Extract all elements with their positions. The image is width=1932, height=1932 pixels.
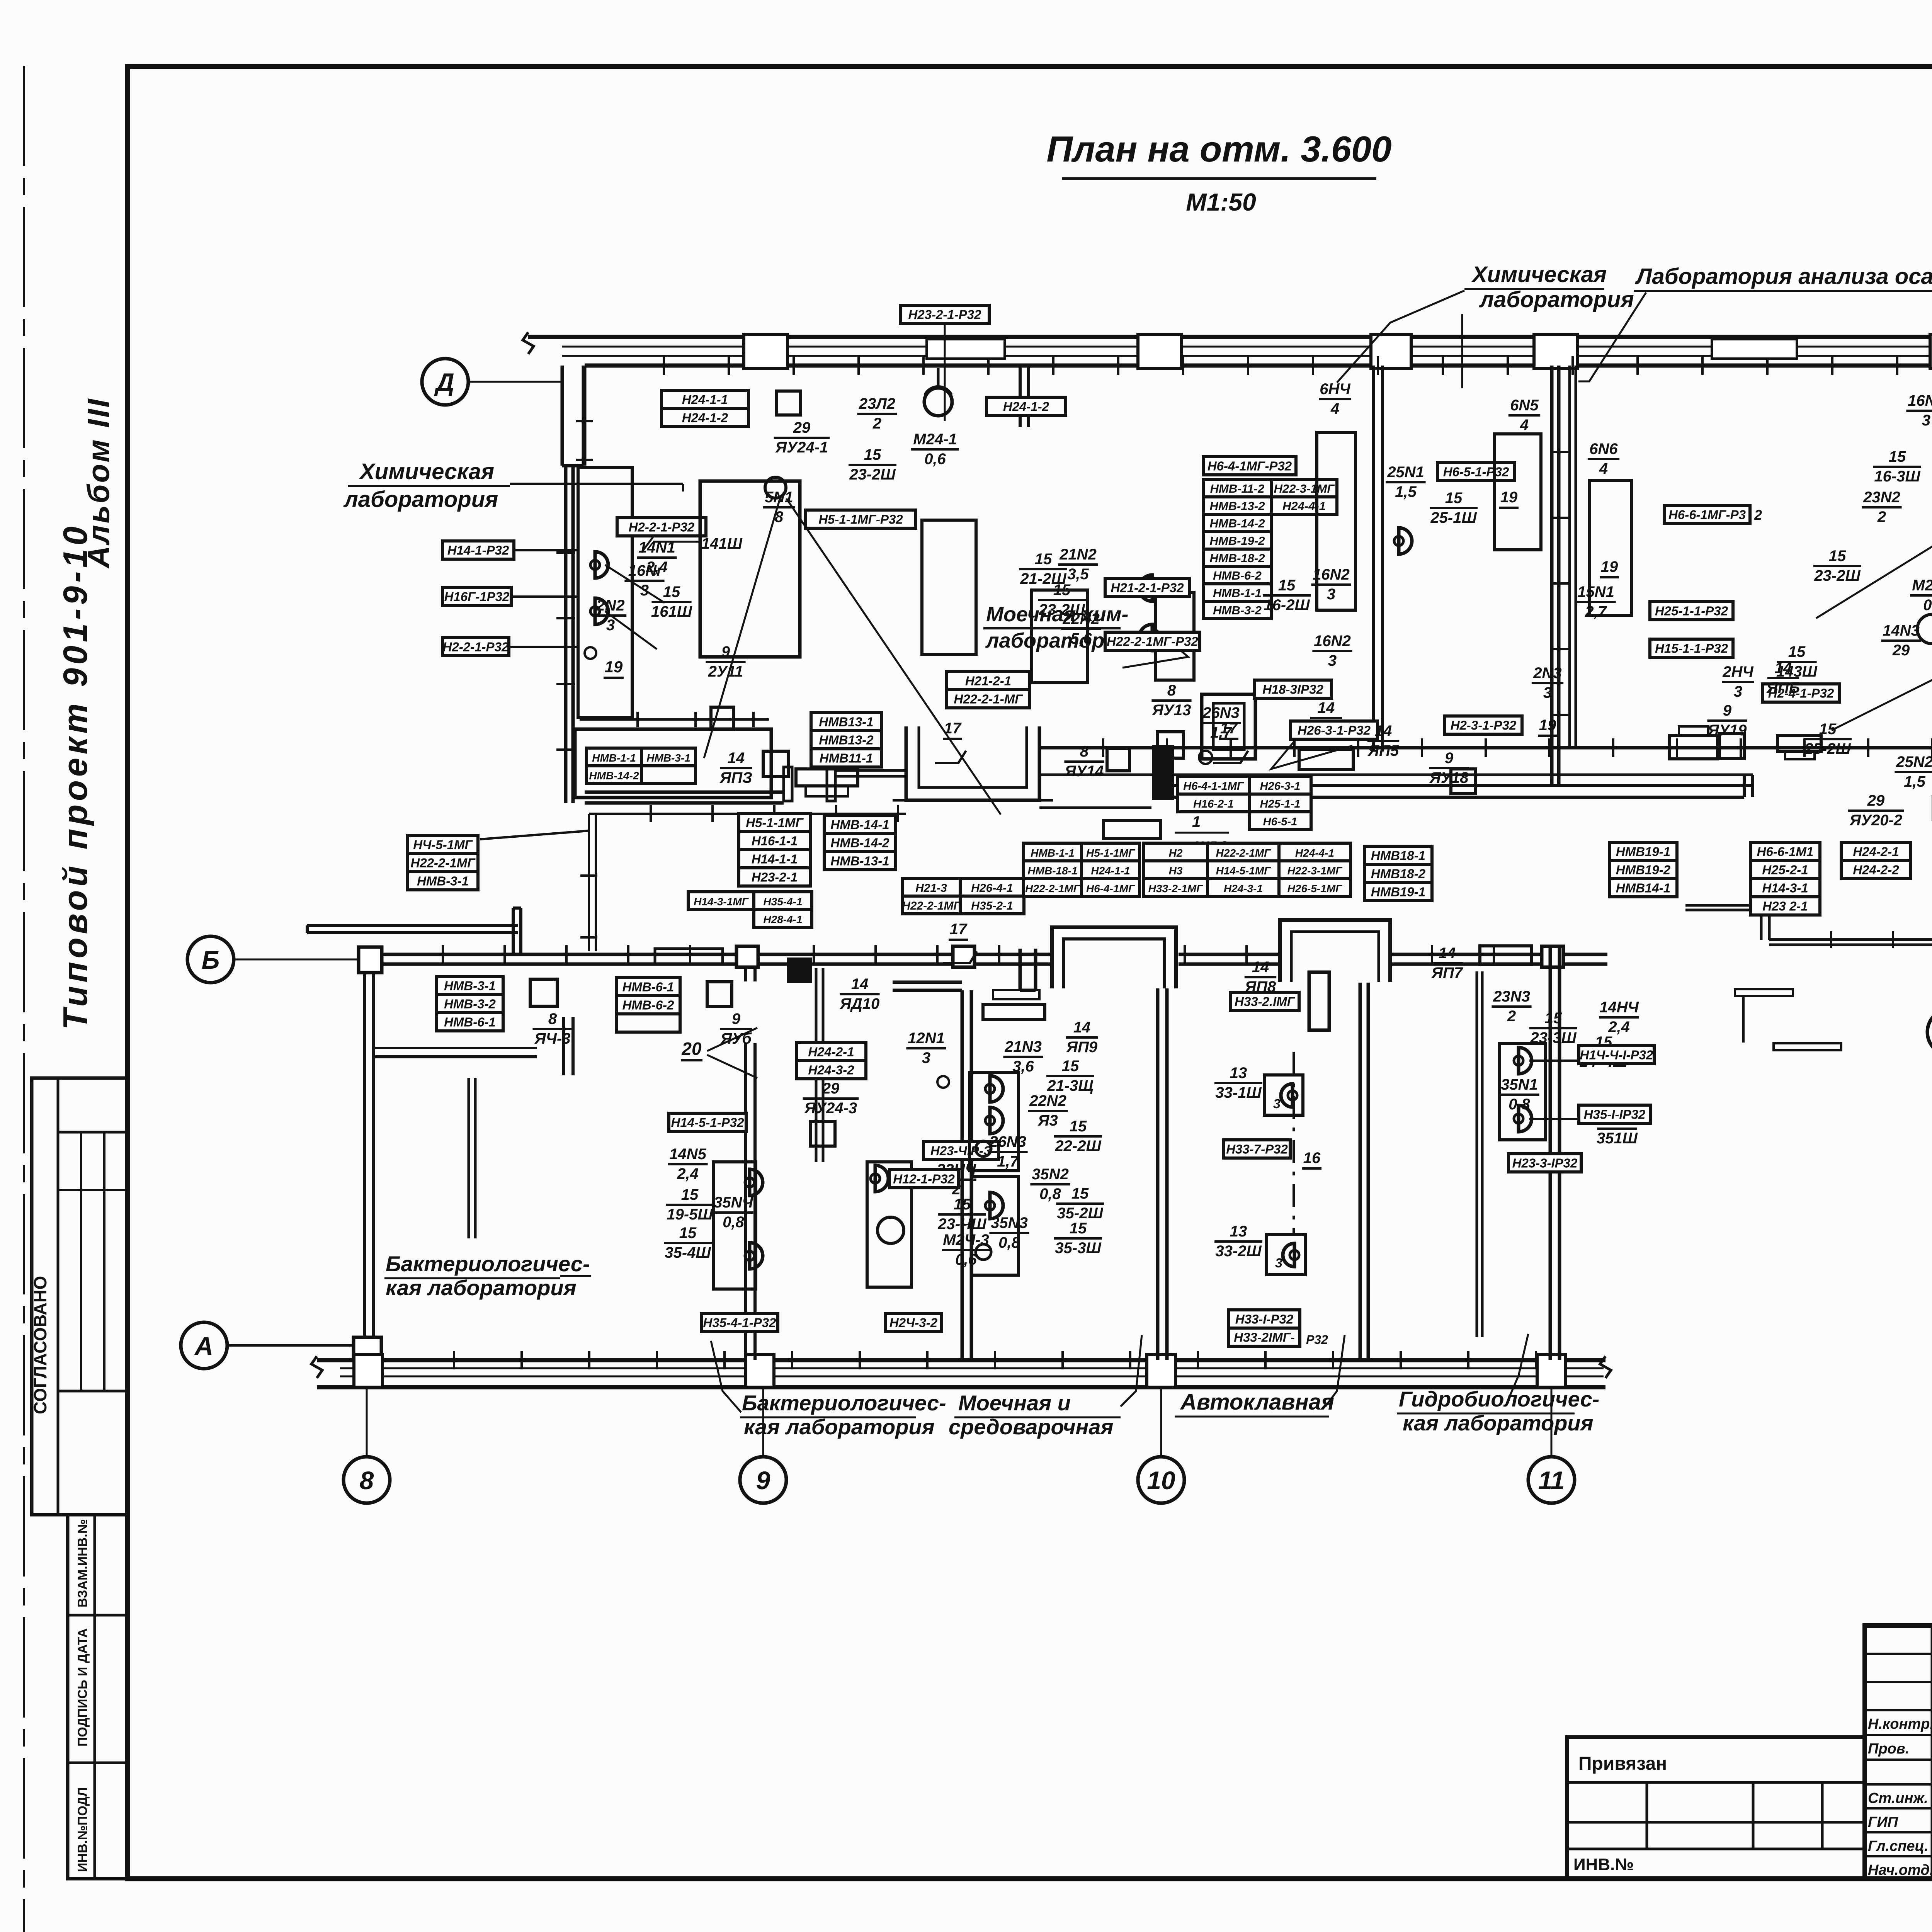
svg-text:0,8: 0,8 [723, 1214, 744, 1231]
svg-text:17: 17 [950, 921, 968, 938]
svg-text:2: 2 [1507, 1008, 1516, 1025]
svg-text:Н24-2-2: Н24-2-2 [1853, 863, 1899, 877]
svg-text:22N2: 22N2 [1029, 1092, 1066, 1109]
svg-text:2N3: 2N3 [1533, 665, 1561, 682]
svg-text:НМВ19-2: НМВ19-2 [1616, 863, 1671, 877]
svg-text:Н15-1-1-Р32: Н15-1-1-Р32 [1655, 641, 1728, 656]
box Н18-3Р32 [1254, 680, 1332, 698]
svg-text:Н22-2-1-МГ: Н22-2-1-МГ [954, 692, 1024, 706]
box Н6-4-1МГ-Р32 [1203, 457, 1296, 475]
svg-text:4: 4 [1520, 417, 1529, 434]
lamp М24-1 [924, 388, 952, 416]
lower block bottom band [317, 1358, 1605, 1362]
svg-text:15: 15 [1053, 582, 1071, 599]
luminaire 21N2 [1139, 575, 1157, 601]
svg-text:35NЧ: 35NЧ [714, 1194, 753, 1211]
diagonal leader 2 [786, 498, 1001, 815]
svg-text:Н24-2-1: Н24-2-1 [1853, 845, 1899, 859]
svg-text:Н33-2.IМГ: Н33-2.IМГ [1235, 995, 1296, 1009]
svg-text:23N2: 23N2 [1863, 489, 1900, 506]
svg-text:ЯУ14: ЯУ14 [1065, 763, 1104, 780]
axis Д circle [422, 359, 468, 405]
svg-text:Я3: Я3 [1037, 1112, 1058, 1129]
svg-text:НМВ-18-1: НМВ-18-1 [1027, 865, 1077, 877]
svg-text:Н21-3: Н21-3 [915, 882, 947, 895]
svg-text:НМВ-14-2: НМВ-14-2 [589, 770, 639, 782]
svg-text:Лаборатория анализа осадка: Лаборатория анализа осадка [1635, 264, 1932, 289]
svg-text:161Ш: 161Ш [651, 603, 692, 620]
svg-text:НМВ-1-1: НМВ-1-1 [1031, 847, 1075, 859]
boxes Н21-2-1 [947, 672, 1030, 690]
svg-text:2: 2 [1754, 507, 1762, 523]
svg-text:0,6: 0,6 [924, 451, 946, 468]
bay walls near x2640 [893, 981, 962, 984]
svg-text:ЯУ20-2: ЯУ20-2 [1849, 812, 1902, 829]
svg-text:14: 14 [1775, 660, 1792, 677]
svg-text:5,6: 5,6 [1070, 630, 1092, 647]
box Н23-2-1-Р32 above band [900, 305, 989, 323]
square ЯУ13 [1157, 732, 1184, 758]
upper block partition stub [1019, 366, 1022, 427]
svg-text:15: 15 [1445, 490, 1463, 507]
vestibule B автоклавная [1278, 919, 1392, 983]
svg-text:НМВ-13-2: НМВ-13-2 [1210, 499, 1265, 513]
svg-text:35N3: 35N3 [991, 1214, 1028, 1231]
svg-text:15: 15 [1278, 577, 1296, 594]
svg-text:Н26-3-1: Н26-3-1 [1260, 780, 1301, 793]
svg-text:М24-2: М24-2 [1912, 577, 1932, 594]
upper block bottom wall left segment [585, 791, 784, 794]
svg-text:Н23 2-1: Н23 2-1 [1762, 899, 1808, 913]
fixture ЯП9 [983, 1004, 1045, 1020]
svg-text:Н1Ч-Ч-I-Р32: Н1Ч-Ч-I-Р32 [1580, 1048, 1653, 1062]
svg-text:ЯЧ-3: ЯЧ-3 [534, 1030, 570, 1047]
bench L1 [713, 1162, 756, 1289]
svg-text:Б: Б [202, 946, 220, 974]
svg-text:23Л2: 23Л2 [859, 395, 895, 412]
svg-text:Н24-4-1: Н24-4-1 [1295, 847, 1334, 859]
svg-text:Нач.отд.: Нач.отд. [1868, 1862, 1932, 1878]
svg-text:НМВ-3-1: НМВ-3-1 [646, 752, 690, 764]
svg-text:1,5: 1,5 [1395, 483, 1417, 500]
slab line under left rooms [589, 813, 906, 815]
svg-text:Н22-2-1МГ: Н22-2-1МГ [902, 900, 961, 912]
svg-text:15: 15 [1070, 1118, 1087, 1135]
svg-text:15: 15 [679, 1225, 697, 1242]
svg-text:ПОДПИСЬ И ДАТА: ПОДПИСЬ И ДАТА [75, 1628, 90, 1747]
svg-text:6N6: 6N6 [1589, 440, 1618, 457]
svg-text:Н14-3-1МГ: Н14-3-1МГ [694, 896, 749, 908]
box Н5-1-1МГ-Р32 [806, 510, 916, 528]
lower partition x4012 [1549, 947, 1552, 1360]
svg-text:ВЗАМ.ИНВ.№: ВЗАМ.ИНВ.№ [75, 1519, 90, 1607]
svg-text:НМВ-14-1: НМВ-14-1 [830, 818, 889, 832]
slab end stub [512, 908, 515, 955]
corridor wall x4016 [1550, 366, 1554, 786]
wall joint block [1152, 745, 1174, 800]
svg-text:8: 8 [1167, 682, 1176, 699]
svg-text:Н25-2-1: Н25-2-1 [1762, 863, 1808, 877]
svg-text:3: 3 [606, 617, 615, 634]
box Н23-4-1Р-3 [923, 1141, 998, 1160]
svg-text:20: 20 [681, 1039, 702, 1059]
lower partition x3520 [1359, 978, 1362, 1360]
svg-text:25N2: 25N2 [1896, 753, 1932, 770]
svg-text:21N2: 21N2 [1059, 546, 1097, 563]
svg-text:Н6-4-1МГ-Р32: Н6-4-1МГ-Р32 [1207, 459, 1292, 473]
svg-text:Н22-2-1МГ: Н22-2-1МГ [1216, 847, 1271, 859]
switch box 33-2 [1267, 1235, 1305, 1275]
box Н24-3-2 lower [885, 1313, 942, 1332]
svg-text:НМВ-18-2: НМВ-18-2 [1210, 551, 1265, 565]
square ЯУ6 [707, 982, 732, 1007]
switch box 33-1 [1264, 1075, 1303, 1115]
svg-text:9: 9 [1723, 702, 1732, 719]
svg-text:Н16Г-1Р32: Н16Г-1Р32 [444, 590, 510, 604]
svg-text:М2Ч-3: М2Ч-3 [943, 1231, 989, 1248]
svg-text:2,4: 2,4 [677, 1165, 699, 1182]
fixture ЯПБ [1670, 736, 1718, 759]
svg-text:Н21-2-1-Р32: Н21-2-1-Р32 [1111, 581, 1184, 595]
sheet margin dash line left [23, 66, 25, 1932]
square ЯУ14 [1107, 748, 1129, 771]
svg-text:13: 13 [1230, 1223, 1247, 1240]
svg-text:14N3: 14N3 [1883, 622, 1920, 639]
lower block left wall [363, 972, 366, 1337]
vertical tray from corridor [588, 814, 590, 951]
svg-text:НМВ13-1: НМВ13-1 [819, 715, 873, 729]
svg-text:ЯУ13: ЯУ13 [1152, 702, 1191, 719]
black box ЯП10 [787, 957, 812, 983]
fixture ЯПУ [1202, 694, 1255, 759]
svg-text:НМВ-6-1: НМВ-6-1 [622, 980, 674, 994]
svg-text:19: 19 [1601, 558, 1618, 575]
svg-text:Химическая: Химическая [1471, 262, 1607, 287]
svg-text:Н23-2-1: Н23-2-1 [752, 870, 798, 884]
bench НМВ-1-1 room [575, 729, 771, 798]
axis Д tee wall [561, 366, 564, 466]
svg-text:15: 15 [1071, 1185, 1089, 1202]
top band window blocks [927, 339, 1005, 359]
title block left привязан box [1567, 1737, 1865, 1879]
svg-text:4: 4 [1599, 460, 1608, 477]
bench U1 circle [765, 477, 786, 498]
stack Н5-1-1МГ [739, 813, 810, 832]
box Н21-2-1-Р32 [1105, 578, 1189, 597]
svg-text:Н14-1-Р32: Н14-1-Р32 [447, 543, 509, 558]
svg-text:Н2-2-1-Р32: Н2-2-1-Р32 [629, 520, 695, 534]
svg-text:1,7: 1,7 [997, 1153, 1019, 1170]
vestibule C средоварочная [1050, 926, 1179, 988]
svg-text:Н24-4-1: Н24-4-1 [1282, 499, 1326, 513]
dash-dot cable down autoclave [1293, 1052, 1295, 1235]
svg-text:Н33-2-1МГ: Н33-2-1МГ [1148, 883, 1204, 895]
svg-text:14: 14 [1073, 1019, 1091, 1036]
luminaire bench L2 [871, 1165, 888, 1192]
svg-text:15: 15 [1889, 448, 1906, 465]
svg-text:ЯП5: ЯП5 [1367, 742, 1399, 759]
svg-text:2N2: 2N2 [596, 597, 624, 614]
svg-text:Гидробиологичес-: Гидробиологичес- [1399, 1387, 1599, 1411]
svg-text:8: 8 [360, 1466, 374, 1495]
svg-text:Типовой проект 901-9-10: Типовой проект 901-9-10 [56, 523, 94, 1030]
lower partition x1930 [744, 964, 747, 981]
svg-text:29: 29 [793, 419, 811, 436]
svg-text:Н33-I-Р32: Н33-I-Р32 [1235, 1312, 1294, 1327]
svg-text:3: 3 [1734, 683, 1742, 700]
svg-text:Н24-3-2: Н24-3-2 [808, 1063, 854, 1077]
svg-text:17: 17 [1220, 720, 1238, 737]
svg-text:35N1: 35N1 [1501, 1076, 1538, 1093]
vertical tray x2112 [815, 968, 818, 1162]
svg-text:кая лаборатория: кая лаборатория [744, 1415, 935, 1439]
svg-text:кая лаборатория: кая лаборатория [1403, 1411, 1594, 1435]
svg-text:15: 15 [681, 1186, 699, 1203]
svg-text:Бактериологичес-: Бактериологичес- [386, 1252, 590, 1276]
svg-text:23-2Ш: 23-2Ш [849, 466, 896, 483]
svg-text:кая лаборатория: кая лаборатория [386, 1276, 577, 1300]
svg-text:8: 8 [1080, 743, 1089, 760]
luminaire 16N1 [590, 598, 608, 624]
svg-text:Н2-2-1-Р32: Н2-2-1-Р32 [443, 640, 509, 654]
fraction 1 ШР2 [1104, 821, 1161, 838]
ticks bottom band [453, 1351, 455, 1369]
svg-text:25-1Ш: 25-1Ш [1430, 509, 1477, 526]
lower block top-left column [359, 947, 382, 973]
axis Б circle [187, 936, 234, 983]
axis circle 11 [1528, 1457, 1575, 1503]
svg-text:Н26-4-1: Н26-4-1 [971, 882, 1013, 895]
svg-text:Н33-7-Р32: Н33-7-Р32 [1226, 1142, 1288, 1156]
svg-text:Н14-5-1МГ: Н14-5-1МГ [1216, 865, 1271, 877]
square ЯУ24-1 [777, 391, 801, 415]
svg-text:Н24-2-1: Н24-2-1 [808, 1045, 854, 1059]
svg-text:12N1: 12N1 [908, 1030, 945, 1047]
leader box to tray [480, 831, 589, 839]
svg-text:3: 3 [1328, 652, 1337, 669]
box Н6-5-1-Р32 [1437, 463, 1515, 481]
bench T2 [1495, 434, 1541, 550]
svg-text:14N5: 14N5 [669, 1146, 706, 1163]
svg-text:2: 2 [872, 415, 881, 432]
svg-text:Н12-1-Р32: Н12-1-Р32 [893, 1172, 955, 1186]
luminaires bench L1 [745, 1169, 763, 1196]
door jambs mid [784, 767, 792, 801]
svg-text:М1:50: М1:50 [1186, 188, 1256, 216]
grid Н2 big [1144, 843, 1207, 861]
luminaire 14НЧ [1514, 1048, 1532, 1074]
corridor shaft second wall [1568, 366, 1571, 748]
svg-text:НЧ-5-1МГ: НЧ-5-1МГ [413, 838, 473, 852]
corridor wall right segment [1039, 746, 1932, 750]
fixture ЯП5 [1299, 749, 1353, 769]
bench M2 [1155, 592, 1194, 680]
svg-text:Химическая: Химическая [359, 459, 494, 484]
svg-text:ЯУ24-3: ЯУ24-3 [804, 1100, 857, 1117]
svg-text:Н33-2IМГ-: Н33-2IМГ- [1234, 1330, 1295, 1345]
svg-text:лаборатория: лаборатория [343, 487, 498, 512]
svg-text:4: 4 [1330, 400, 1339, 417]
svg-text:СОГЛАСОВАНО: СОГЛАСОВАНО [30, 1276, 50, 1414]
box Н14-4-1-Р32 [1579, 1046, 1654, 1064]
svg-text:15: 15 [1829, 548, 1846, 565]
svg-text:21N3: 21N3 [1004, 1038, 1042, 1055]
svg-text:Н5-1-1МГ-Р32: Н5-1-1МГ-Р32 [818, 512, 903, 527]
bench left wall strip [578, 468, 632, 718]
svg-text:21-3Щ: 21-3Щ [1047, 1077, 1094, 1094]
axis circle 12 [1927, 1009, 1932, 1055]
box Н23-3-1-Р32 [1509, 1154, 1581, 1172]
svg-text:19-5Ш: 19-5Ш [667, 1206, 713, 1223]
title block signature grid [1865, 1653, 1932, 1655]
box Н14-5-1-Р32 [669, 1113, 746, 1131]
svg-text:Н16-1-1: Н16-1-1 [752, 834, 798, 848]
lower block top wall [381, 953, 1607, 956]
svg-text:ГИП: ГИП [1868, 1814, 1898, 1830]
bottom band pilasters [354, 1354, 383, 1387]
svg-text:1,5: 1,5 [1904, 773, 1925, 790]
corridor bottom wall right [1174, 784, 1753, 787]
bench L2 [867, 1162, 912, 1287]
axis А circle [181, 1322, 227, 1369]
svg-text:Ст.инж.: Ст.инж. [1868, 1790, 1928, 1806]
svg-text:15: 15 [954, 1196, 971, 1213]
svg-text:3: 3 [1922, 412, 1930, 429]
svg-text:Н25-1-1: Н25-1-1 [1260, 798, 1301, 810]
svg-text:14НЧ: 14НЧ [1599, 999, 1639, 1016]
svg-text:Бактериологичес-: Бактериологичес- [742, 1391, 946, 1415]
boxes Н24-2-1 [1841, 842, 1911, 861]
ticks along left wall [556, 551, 575, 554]
boxes Н6-6-1М1 [1750, 842, 1820, 861]
svg-text:НМВ19-1: НМВ19-1 [1616, 845, 1670, 859]
svg-text:15: 15 [1070, 1220, 1087, 1237]
axis circle 8 [344, 1457, 390, 1503]
svg-text:3: 3 [1273, 1097, 1281, 1111]
tray line in room [580, 718, 769, 721]
svg-text:15: 15 [864, 446, 881, 463]
svg-text:15: 15 [1788, 643, 1806, 660]
box Н15-1-1-Р32 [1650, 639, 1733, 657]
svg-text:Н6-5-1: Н6-5-1 [1263, 816, 1298, 828]
svg-text:Н.контр.: Н.контр. [1868, 1716, 1932, 1732]
svg-text:Н22-3-1МГ: Н22-3-1МГ [1274, 482, 1335, 495]
grid Н14-3-1МГ [688, 892, 754, 910]
fraction 8 ЯЧ-3 [530, 979, 557, 1006]
axis circle 9 [740, 1457, 786, 1503]
svg-text:14: 14 [1439, 945, 1456, 962]
square 2У11 [711, 707, 733, 730]
svg-text:средоварочная: средоварочная [949, 1415, 1113, 1439]
svg-text:29: 29 [1892, 642, 1910, 659]
bench U2 [922, 520, 976, 655]
box Н2-3-1-Р32 [1445, 716, 1522, 734]
svg-text:11: 11 [1538, 1466, 1565, 1495]
svg-text:Н24-1-2: Н24-1-2 [1003, 400, 1049, 414]
lower block roof slab line [307, 924, 518, 927]
svg-text:ЯУ24-1: ЯУ24-1 [775, 439, 828, 456]
svg-text:ЯП7: ЯП7 [1431, 964, 1463, 981]
svg-text:0,8: 0,8 [1039, 1185, 1061, 1202]
square ЯУ19 [1719, 734, 1744, 759]
luminaire 14N1 [590, 552, 608, 578]
svg-text:НМВ-6-2: НМВ-6-2 [1213, 569, 1262, 582]
svg-text:НМВ-13-1: НМВ-13-1 [830, 854, 889, 868]
svg-text:14: 14 [728, 750, 745, 767]
svg-text:23N3: 23N3 [1493, 988, 1530, 1005]
svg-text:Пров.: Пров. [1868, 1741, 1909, 1757]
svg-text:НМВ-14-2: НМВ-14-2 [1210, 517, 1265, 530]
top band pilasters [744, 334, 787, 368]
svg-text:Н28-4-1: Н28-4-1 [763, 913, 802, 925]
svg-text:Н3: Н3 [1169, 865, 1183, 877]
axis lines to bottom circles [366, 1388, 368, 1456]
boxes НМВ13 [811, 713, 881, 731]
boxes Н33-1-Р32 lower [1229, 1310, 1300, 1328]
svg-text:Н35-2-1: Н35-2-1 [971, 900, 1013, 912]
svg-text:6N5: 6N5 [1510, 397, 1539, 414]
fixture ЯП7 [1480, 946, 1532, 964]
boxes НМВ18 right [1609, 842, 1677, 861]
luminaire 22N2 [1139, 624, 1157, 651]
left table СОГЛАСОВАНО block [32, 1078, 128, 1515]
svg-text:14: 14 [1318, 699, 1335, 716]
svg-text:Н35-4-1-Р32: Н35-4-1-Р32 [703, 1316, 777, 1330]
svg-text:А: А [194, 1332, 213, 1360]
svg-text:Н14-1-1: Н14-1-1 [752, 852, 798, 866]
svg-text:16: 16 [1303, 1150, 1321, 1167]
svg-text:Н21-2-1: Н21-2-1 [965, 674, 1011, 688]
svg-text:14: 14 [1252, 959, 1269, 976]
lamp М24-2 [1917, 614, 1932, 644]
svg-text:26N3: 26N3 [1202, 704, 1240, 721]
top wall junction blocks [736, 946, 758, 967]
svg-text:Привязан: Привязан [1578, 1753, 1667, 1774]
top exterior wall band [528, 335, 1932, 339]
label boxes left edge [442, 541, 514, 559]
svg-text:НМВ-3-2: НМВ-3-2 [1213, 604, 1262, 617]
fixture ЯП8 [1309, 972, 1329, 1030]
svg-text:Н22-3-1МГ: Н22-3-1МГ [1287, 865, 1343, 877]
svg-text:Гл.спец.: Гл.спец. [1868, 1838, 1929, 1854]
stack Н14-5-1МГ left [408, 835, 478, 854]
svg-text:ЯП9: ЯП9 [1066, 1039, 1098, 1056]
svg-text:Н23-3-IР32: Н23-3-IР32 [1512, 1156, 1578, 1170]
luminaire 35N1 [1514, 1105, 1532, 1132]
svg-text:Н24-1-1: Н24-1-1 [1091, 865, 1130, 877]
svg-text:Н24-1-1: Н24-1-1 [682, 393, 728, 407]
box Н2-2-1-Р32 upper [617, 518, 706, 536]
svg-text:Н24-3-1: Н24-3-1 [1224, 883, 1263, 895]
svg-text:Моечная и: Моечная и [958, 1391, 1071, 1415]
svg-text:17: 17 [944, 720, 962, 737]
svg-text:Н23-2-1-Р32: Н23-2-1-Р32 [908, 308, 982, 322]
central big stack НМВ [1203, 480, 1271, 497]
box Н25-1-1-Р32 [1650, 602, 1733, 620]
door leaves right corridor [1735, 989, 1793, 1043]
svg-text:9: 9 [732, 1010, 741, 1027]
svg-text:2У11: 2У11 [708, 663, 743, 680]
cluster НМВ18 center [1364, 846, 1432, 864]
upper block partition x3555 [1372, 366, 1375, 752]
svg-text:14: 14 [851, 976, 869, 993]
upper block left wall [564, 466, 568, 803]
svg-text:лаборатория: лаборатория [1479, 287, 1634, 312]
svg-text:19: 19 [605, 658, 623, 676]
grid НМВ-1-1 [1024, 843, 1082, 861]
svg-text:19: 19 [1500, 489, 1518, 506]
right rooms top wall [1685, 904, 1769, 907]
